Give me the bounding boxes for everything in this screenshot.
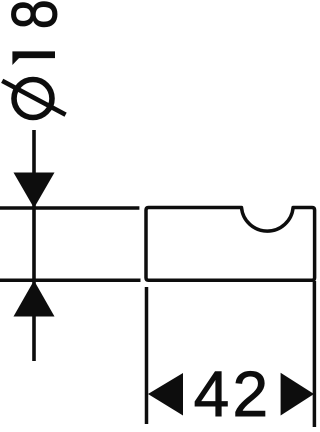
svg-text:8: 8 [0, 0, 71, 29]
left extension line of 42 dimension [145, 287, 149, 424]
bottom extension line [0, 278, 141, 282]
vertical dimension line [32, 130, 36, 361]
top extension line [0, 206, 139, 210]
diameter symbol circle (part of Ø18 label) [14, 80, 52, 118]
up arrowhead of vertical dimension [14, 281, 55, 317]
right extension line of 42 dimension [313, 281, 317, 427]
svg-text:4: 4 [194, 358, 230, 430]
diameter symbol slash [2, 81, 65, 115]
digit 1 of Ø18 (rotated, drawn: bar + flag hook) [12, 51, 55, 65]
left arrowhead of 42 dimension [148, 373, 183, 416]
svg-text:2: 2 [233, 358, 269, 430]
right arrowhead of 42 dimension [281, 373, 314, 416]
down arrowhead of vertical dimension [14, 173, 55, 209]
profile outline with notch [146, 208, 315, 281]
